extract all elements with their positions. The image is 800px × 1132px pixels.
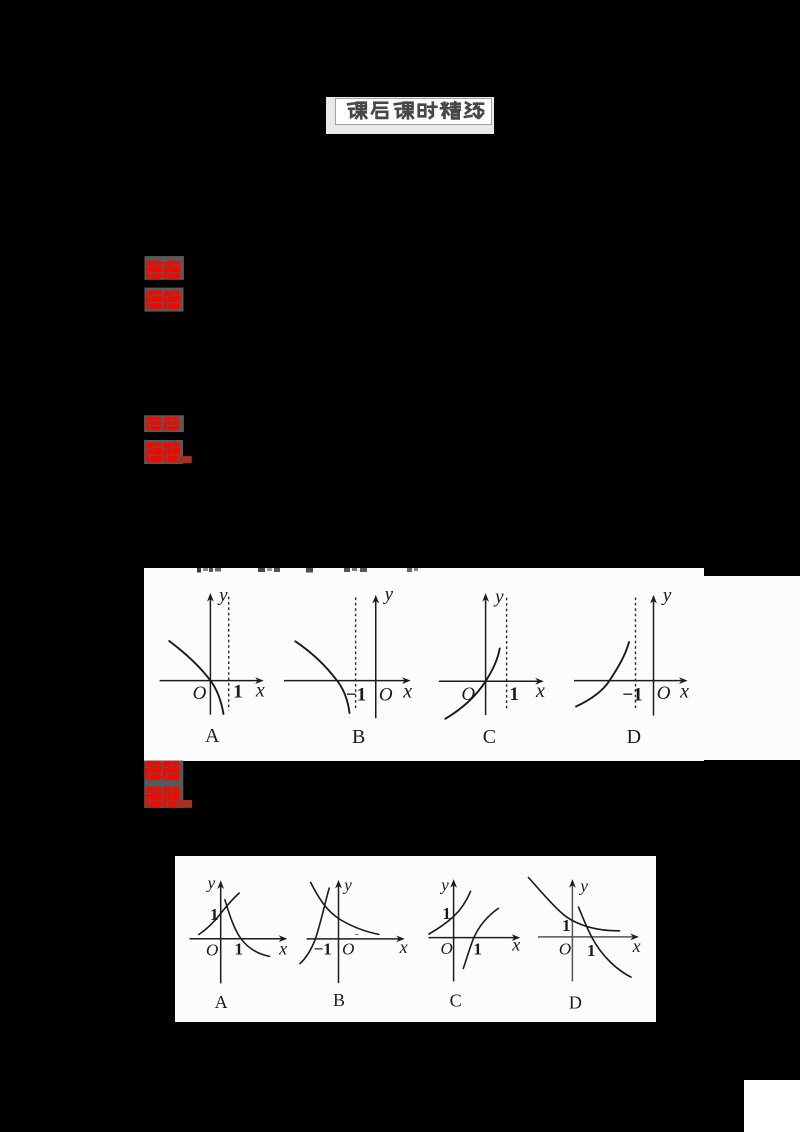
svg-text:A: A: [205, 725, 220, 747]
svg-text:y: y: [206, 873, 216, 892]
svg-text:C: C: [483, 726, 496, 748]
svg-text:O: O: [559, 939, 571, 958]
svg-text:−1: −1: [346, 685, 366, 706]
svg-text:x: x: [511, 935, 520, 955]
svg-text:O: O: [342, 940, 354, 959]
svg-text:x: x: [278, 939, 287, 959]
svg-text:y: y: [661, 585, 672, 606]
svg-text:1: 1: [235, 940, 244, 959]
svg-text:O: O: [193, 683, 207, 704]
svg-text:O: O: [657, 683, 671, 704]
svg-text:x: x: [402, 680, 412, 702]
svg-text:y: y: [342, 876, 352, 895]
svg-text:y: y: [493, 587, 504, 608]
svg-text:x: x: [679, 680, 689, 702]
svg-text:1: 1: [562, 916, 571, 935]
svg-text:D: D: [569, 993, 582, 1013]
svg-text:B: B: [352, 726, 365, 748]
svg-text:1: 1: [233, 681, 243, 702]
svg-text:x: x: [632, 936, 641, 956]
svg-text:x: x: [535, 680, 545, 702]
svg-text:A: A: [215, 992, 228, 1012]
svg-text:O: O: [379, 685, 393, 706]
svg-text:O: O: [461, 684, 475, 705]
svg-text:y: y: [383, 584, 394, 605]
svg-text:1: 1: [509, 684, 519, 705]
svg-text:D: D: [627, 726, 641, 748]
svg-text:C: C: [450, 991, 462, 1011]
svg-text:−1: −1: [314, 940, 332, 959]
svg-text:y: y: [578, 876, 588, 895]
svg-text:O: O: [440, 939, 452, 958]
svg-text:1: 1: [210, 905, 219, 924]
svg-text:y: y: [217, 585, 228, 606]
svg-text:x: x: [255, 679, 265, 701]
svg-text:1: 1: [473, 940, 482, 959]
svg-text:O: O: [206, 941, 218, 960]
svg-text:B: B: [333, 990, 345, 1010]
svg-text:1: 1: [442, 904, 451, 923]
svg-text:1: 1: [587, 941, 596, 960]
svg-text:x: x: [399, 937, 408, 957]
svg-text:−1: −1: [622, 685, 642, 706]
svg-text:y: y: [439, 876, 449, 895]
